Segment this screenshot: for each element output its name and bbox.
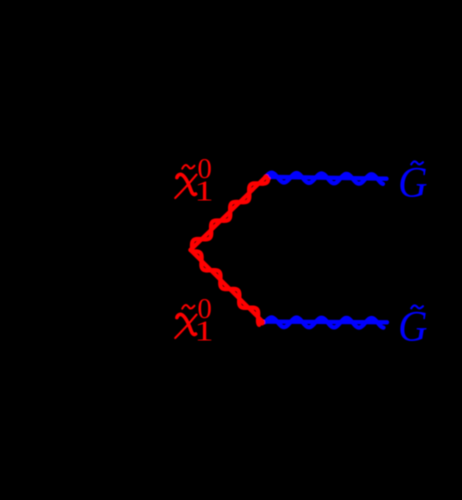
- svg-text:1: 1: [194, 316, 213, 347]
- neutralino line upper: [191, 177, 269, 251]
- label chi_1^0 upper: [175, 153, 214, 207]
- label G-tilde upper: [398, 158, 427, 207]
- vertex blob: [188, 248, 192, 252]
- svg-text:G: G: [398, 302, 427, 351]
- label chi_1^0 lower: [175, 293, 214, 347]
- label G-tilde lower: [398, 302, 427, 351]
- junction blob lower: [259, 319, 265, 325]
- svg-text:G: G: [398, 158, 427, 207]
- svg-text:1: 1: [194, 176, 213, 207]
- gravitino line upper: [266, 173, 387, 184]
- junction blob upper: [263, 174, 269, 180]
- neutralino line lower: [191, 250, 263, 325]
- gravitino line lower: [263, 317, 388, 327]
